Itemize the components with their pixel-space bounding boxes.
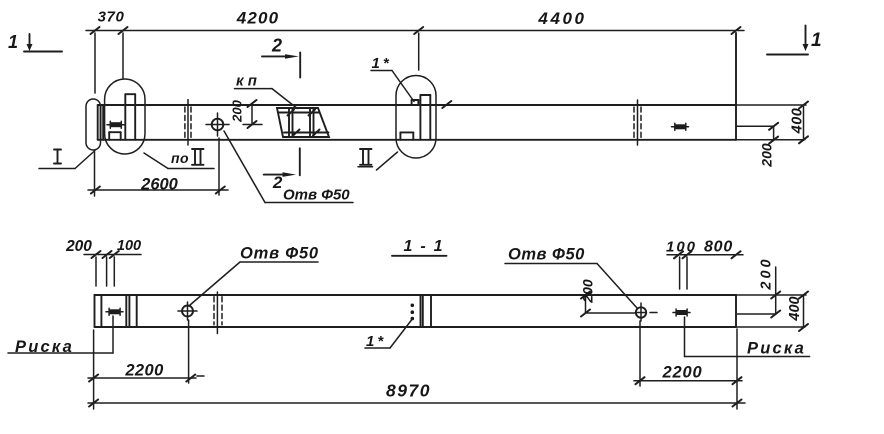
svg-text:370: 370: [98, 9, 125, 26]
svg-text:Отв Ф50: Отв Ф50: [508, 246, 585, 264]
bolt symbol (section left): [106, 308, 123, 315]
bolt symbol (top view right): [672, 123, 689, 130]
svg-text:Риска: Риска: [747, 340, 806, 358]
dims 100 800 (section right): [667, 251, 743, 289]
label по II: [144, 149, 214, 169]
joint dashed lines (section, x~218): [214, 292, 222, 334]
svg-text:8970: 8970: [386, 381, 431, 401]
dim 200 (section, at right hole): [581, 292, 636, 317]
hole extension down (2200 left): [188, 320, 190, 383]
svg-text:по: по: [171, 150, 189, 166]
extension/right end line x=736: [735, 33, 737, 140]
hole extension down (2200 right): [639, 321, 641, 386]
joint lines middle (section): [421, 295, 432, 327]
stub plate (right oval): [420, 95, 430, 140]
svg-text:200: 200: [230, 99, 245, 122]
tick on beam top edge (4200/4400 boundary): [442, 101, 451, 108]
svg-text:200: 200: [759, 143, 775, 168]
extension line left (x=95): [94, 33, 96, 93]
svg-text:400: 400: [790, 108, 806, 135]
beam right edge (section): [735, 295, 737, 327]
label Риска (left) with leader: [8, 316, 113, 356]
dim 200 at hole (top view): [243, 100, 262, 128]
stub plate (left oval): [125, 94, 135, 140]
svg-text:2200: 2200: [124, 362, 164, 380]
bolt symbol (section right): [673, 309, 690, 316]
svg-text:4200: 4200: [236, 9, 280, 28]
svg-text:1*: 1*: [372, 55, 392, 72]
end plate line left (section): [100, 295, 102, 327]
dim 2200 (section right): [634, 377, 742, 384]
section mark 2 (top): [262, 36, 300, 78]
section mark 1 (top left): [8, 32, 62, 52]
beam bottom edge extension right: [736, 326, 805, 328]
svg-text:1-1: 1-1: [403, 238, 450, 255]
extension left edge down to 8970: [93, 330, 95, 409]
svg-text:800: 800: [704, 239, 733, 256]
extension line x=123: [122, 33, 124, 78]
svg-text:200: 200: [759, 256, 775, 290]
hole Отв Ф50 (section left): [178, 302, 197, 320]
hole Отв Ф50 (top view): [206, 113, 229, 136]
label Отв Ф50 (section left) with leader: [190, 245, 319, 306]
svg-text:Отв Ф50: Отв Ф50: [283, 187, 350, 204]
section mark 1 (top right): [767, 26, 822, 55]
svg-text:2: 2: [271, 36, 282, 56]
joint dashed lines right: [633, 107, 635, 138]
label Отв Ф50 (top view) with leader: [224, 131, 353, 204]
beam top edge extension right: [736, 294, 806, 296]
cover plate кп (parallelogram): [277, 108, 329, 137]
svg-text:200: 200: [65, 238, 92, 255]
detail oval II (right): [396, 76, 436, 159]
beam top edge (section): [95, 294, 737, 296]
dim 200 (section right end): [738, 267, 781, 318]
svg-text:2: 2: [272, 173, 283, 192]
svg-text:Отв Ф50: Отв Ф50: [240, 245, 319, 263]
svg-text:400: 400: [787, 296, 803, 321]
svg-text:2600: 2600: [140, 176, 179, 194]
beam top edge extension (for 400 dim): [736, 104, 806, 106]
svg-text:100: 100: [666, 239, 697, 256]
joint dashed lines left: [184, 107, 186, 138]
svg-text:200: 200: [580, 279, 596, 304]
joint lines left (section): [126, 295, 136, 327]
detail oval I (small, left tip): [86, 99, 101, 150]
label кп: [235, 73, 298, 109]
dim 8970: [88, 400, 745, 407]
beam bottom edge extension: [736, 139, 805, 141]
small plate (right oval, above beam edge): [412, 100, 419, 105]
label II (right): [358, 149, 398, 170]
label Отв Ф50 (section right) with leader: [505, 246, 637, 309]
dim 200 (top view right end): [736, 123, 778, 144]
detail oval II (left): [105, 79, 145, 154]
joint line right (solid): [637, 100, 639, 145]
hole Отв Ф50 (section right): [636, 303, 657, 321]
beam bottom edge: [98, 139, 736, 141]
label 1* (section) with leader: [365, 320, 412, 350]
dim 2200 (section left): [88, 375, 204, 382]
top dimension line 370/4200/4400: [86, 27, 744, 34]
beam bottom edge (section): [95, 326, 737, 328]
beam left edge (section): [94, 295, 96, 327]
label 1* (top view): [371, 55, 414, 102]
extension line x=418.7: [418, 33, 420, 70]
label I (left): [39, 150, 95, 169]
svg-text:1: 1: [8, 32, 18, 52]
joint line left (solid): [187, 100, 189, 145]
dim 400 (section right): [799, 292, 808, 332]
hole extension line down: [218, 138, 220, 195]
svg-text:Риска: Риска: [15, 338, 74, 356]
svg-text:4400: 4400: [537, 9, 586, 28]
section mark 2 (bottom): [264, 148, 300, 192]
small plate rect (left oval bottom): [109, 132, 121, 140]
svg-text:1: 1: [811, 30, 822, 51]
end plate lines left: [100, 105, 102, 140]
small plate rect (right oval bottom): [400, 132, 413, 139]
beam top edge: [98, 104, 736, 106]
svg-text:2200: 2200: [662, 364, 703, 382]
svg-text:к п: к п: [236, 73, 257, 90]
beam left edge: [97, 105, 99, 140]
title 1-1: [392, 238, 451, 256]
extension right edge down to 8970: [736, 329, 738, 409]
dims 200 100 (section left): [84, 251, 141, 286]
svg-text:100: 100: [117, 238, 141, 254]
dim 400 (top view right): [799, 102, 808, 144]
rivet dots (section middle): [411, 304, 415, 321]
label Риска (right) with leader: [685, 317, 810, 358]
dim 2600: [88, 187, 228, 194]
bolt symbol (left oval): [107, 121, 124, 128]
